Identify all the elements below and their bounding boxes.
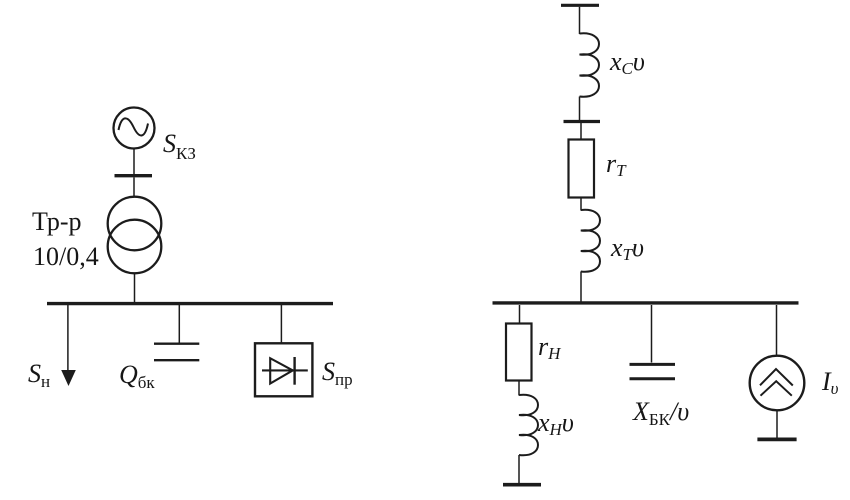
current source stub wire	[776, 305, 778, 355]
wire resistor rT to coil xT	[580, 198, 582, 211]
svg-text:xCυ: xCυ	[609, 47, 645, 78]
svg-text:xTυ: xTυ	[610, 233, 644, 264]
svg-text:Qбк: Qбк	[119, 360, 155, 392]
svg-text:SКЗ: SКЗ	[163, 129, 196, 163]
inductor xT (transformer reactance)	[581, 210, 600, 272]
transformer T1 (Tr-r 10/0,4)	[108, 197, 162, 274]
load branch terminal bar	[503, 483, 541, 487]
wire bar to coil xC	[579, 7, 581, 34]
svg-text:Тр-р: Тр-р	[32, 207, 82, 236]
load feeder wire S_n	[67, 305, 69, 372]
AC source U1 (system S_KZ)	[114, 108, 155, 149]
wire coil xH to terminal	[518, 455, 520, 483]
wire bar to resistor rT	[580, 123, 582, 140]
svg-text:10/0,4: 10/0,4	[33, 242, 99, 271]
wire transformer to left bus	[134, 273, 136, 302]
wire bar to transformer	[133, 177, 135, 197]
left busbar	[47, 302, 333, 305]
capacitor X_BK/v plates	[630, 364, 676, 378]
capacitor bank stub wire	[178, 305, 180, 343]
current source terminal bar	[757, 437, 796, 441]
inductor xH (load reactance)	[519, 395, 538, 455]
breaker bar (terminal)	[115, 174, 153, 177]
wire source to breaker bar	[133, 149, 135, 175]
svg-text:Iυ: Iυ	[821, 367, 839, 398]
svg-text:xHυ: xHυ	[537, 408, 574, 439]
resistor rT	[569, 140, 595, 198]
svg-text:rT: rT	[606, 149, 627, 180]
wire current source to terminal	[776, 410, 778, 437]
system terminal bar top right	[561, 4, 599, 7]
current source I_v	[750, 356, 805, 411]
capacitor bank Q_bk plates	[154, 344, 199, 361]
capacitor branch stub wire	[651, 305, 653, 363]
wire coil xC to mid bar	[579, 97, 581, 121]
arrowhead load S_n	[61, 370, 76, 386]
converter box S_pr (rectifier)	[255, 343, 312, 396]
wire coil xT to right bus	[580, 272, 582, 303]
svg-text:XБК/υ: XБК/υ	[632, 397, 689, 429]
load branch stub to rH	[519, 305, 521, 324]
mid terminal bar	[564, 120, 601, 123]
inductor xC (system reactance)	[580, 33, 600, 96]
svg-text:rH: rH	[538, 332, 562, 363]
svg-text:Sн: Sн	[28, 359, 50, 391]
wire rH to coil xH	[518, 381, 520, 396]
resistor rH	[506, 324, 532, 381]
svg-text:Sпр: Sпр	[322, 357, 353, 389]
right busbar	[493, 301, 799, 304]
converter stub wire	[280, 305, 282, 343]
